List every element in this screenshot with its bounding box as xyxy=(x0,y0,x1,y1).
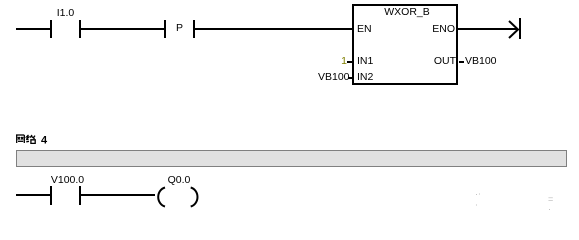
arrow head (rung continuation) xyxy=(505,15,530,43)
pin IN2 xyxy=(357,72,373,83)
wire: contact P to box EN xyxy=(195,28,352,30)
faint watermark specks xyxy=(475,189,488,204)
op box WXOR_B xyxy=(352,4,458,85)
coil Q0.0 xyxy=(154,185,202,209)
label I1.0 xyxy=(50,8,81,19)
tick IN2 xyxy=(348,77,352,79)
pin IN1 xyxy=(357,56,373,67)
wire: contact I1.0 to P contact xyxy=(81,28,164,30)
value VB100 on OUT xyxy=(465,56,497,67)
label Q0.0 xyxy=(158,175,200,186)
glyph 网 xyxy=(16,135,24,143)
label P xyxy=(166,23,193,34)
pin OUT xyxy=(406,56,456,67)
wire: contact V100.0 to coil Q0.0 xyxy=(81,194,155,196)
value VB100 on IN2 xyxy=(318,72,348,83)
wire: ENO to arrow xyxy=(458,28,517,30)
contact V100.0 right bar xyxy=(79,186,81,205)
network separator bar xyxy=(16,150,567,167)
value 1 on IN1 xyxy=(317,56,347,67)
tick IN1 xyxy=(347,61,352,63)
pin EN xyxy=(357,24,372,35)
wire: left rail to contact V100.0 xyxy=(16,194,50,196)
pin ENO xyxy=(406,24,455,35)
contact I1.0 right bar xyxy=(79,20,81,38)
contact P right bar xyxy=(193,20,195,38)
contact P left bar xyxy=(164,20,166,38)
label WXOR_B xyxy=(356,7,458,18)
arrow terminal bar xyxy=(519,18,521,39)
svg-text:4: 4 xyxy=(41,135,48,147)
tick OUT xyxy=(459,61,464,63)
network 4 title (drawn CJK glyphs + 4) xyxy=(14,133,54,146)
wire: left rail to contact I1.0 xyxy=(16,28,50,30)
glyph 络 xyxy=(26,135,35,143)
contact V100.0 left bar xyxy=(50,186,52,205)
contact I1.0 left bar xyxy=(50,20,52,38)
label V100.0 xyxy=(47,175,88,186)
